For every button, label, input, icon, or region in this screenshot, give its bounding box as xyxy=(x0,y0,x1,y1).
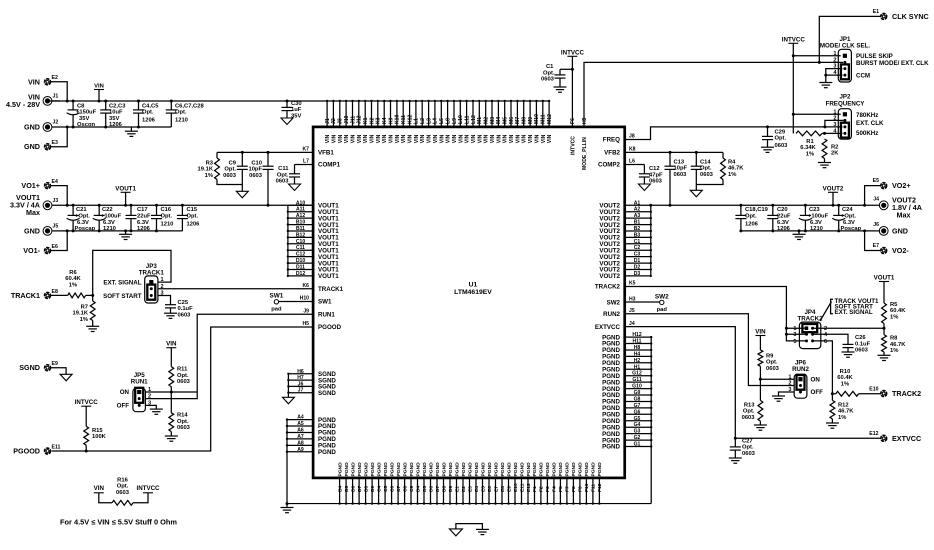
svg-text:J1: J1 xyxy=(325,118,331,124)
svg-text:VIN: VIN xyxy=(376,134,382,143)
svg-text:0603: 0603 xyxy=(766,366,780,372)
svg-text:PULSE SKIP: PULSE SKIP xyxy=(856,53,893,60)
svg-text:A9: A9 xyxy=(297,447,304,453)
svg-text:22uF: 22uF xyxy=(137,214,151,220)
svg-text:VIN: VIN xyxy=(395,134,401,143)
capacitor C20 22uF xyxy=(767,204,791,233)
svg-text:PGND: PGND xyxy=(474,462,480,477)
svg-text:1210: 1210 xyxy=(103,226,116,232)
capacitor C17 22uF xyxy=(126,204,151,233)
svg-text:Opt.: Opt. xyxy=(742,445,754,451)
svg-text:BURST MODE/ EXT. CLK: BURST MODE/ EXT. CLK xyxy=(856,60,929,67)
svg-text:F5: F5 xyxy=(558,486,564,492)
svg-text:U1: U1 xyxy=(469,282,478,289)
svg-text:pad: pad xyxy=(657,307,668,313)
wire E2 to VIN rail xyxy=(51,82,69,103)
svg-text:A5: A5 xyxy=(297,421,304,427)
ground chassis below C14/R4 xyxy=(690,185,702,197)
svg-text:VIN: VIN xyxy=(503,134,509,143)
svg-text:C8: C8 xyxy=(77,103,85,109)
svg-text:VIN: VIN xyxy=(452,134,458,143)
svg-text:J6: J6 xyxy=(298,381,304,387)
svg-text:R1: R1 xyxy=(806,139,814,145)
svg-text:OFF: OFF xyxy=(117,403,130,410)
svg-text:D5: D5 xyxy=(422,485,428,492)
wire VOUT2 GND rail xyxy=(741,230,880,232)
terminal E5 VO2+ xyxy=(873,178,911,190)
svg-text:J9: J9 xyxy=(303,308,309,314)
svg-text:1%: 1% xyxy=(205,173,213,179)
svg-text:C26: C26 xyxy=(855,335,866,341)
svg-text:VIN: VIN xyxy=(528,134,534,143)
svg-text:VIN: VIN xyxy=(401,134,407,143)
svg-text:C6: C6 xyxy=(389,485,395,492)
svg-text:R9: R9 xyxy=(766,353,774,359)
note stuff 0 ohm text xyxy=(60,518,177,527)
svg-text:Opt.: Opt. xyxy=(743,409,755,415)
ground earth below C26 xyxy=(842,352,855,357)
svg-text:1206: 1206 xyxy=(187,222,201,228)
svg-text:0603: 0603 xyxy=(276,179,290,185)
svg-text:H1: H1 xyxy=(634,364,641,370)
svg-text:B8: B8 xyxy=(363,485,369,492)
svg-text:PGND: PGND xyxy=(493,462,499,477)
wire E9 to chassis ground xyxy=(51,368,67,375)
svg-text:E6: E6 xyxy=(52,244,58,250)
svg-text:L6: L6 xyxy=(629,159,635,165)
capacitor C16 Opt xyxy=(151,204,173,233)
capacitor C21 Opt Poscap xyxy=(67,204,96,233)
svg-text:J6: J6 xyxy=(873,222,879,228)
svg-text:J5: J5 xyxy=(629,308,635,314)
resistor R2 2K xyxy=(822,139,839,163)
svg-text:PGND: PGND xyxy=(539,462,545,477)
svg-text:PGND: PGND xyxy=(513,462,519,477)
svg-text:C30: C30 xyxy=(291,101,302,107)
terminal E6 VO1- xyxy=(23,244,58,255)
wire EXTVCC from IC to E12 xyxy=(625,327,881,440)
power flag INTVCC at JP1 xyxy=(782,36,806,43)
svg-text:M2: M2 xyxy=(484,117,490,124)
svg-text:35V: 35V xyxy=(109,116,119,122)
svg-text:PGND: PGND xyxy=(602,444,620,451)
svg-text:INTVCC: INTVCC xyxy=(136,485,160,492)
IC U1 right PGND pins H12-G1 with stubs xyxy=(625,332,653,448)
svg-text:VIN: VIN xyxy=(427,134,433,143)
svg-text:F11: F11 xyxy=(591,484,597,492)
svg-text:2: 2 xyxy=(833,58,836,64)
svg-text:C2,C3: C2,C3 xyxy=(109,103,126,109)
svg-text:4.5V - 28V: 4.5V - 28V xyxy=(6,100,40,109)
svg-text:L11: L11 xyxy=(464,115,470,124)
svg-text:J2: J2 xyxy=(331,118,337,124)
svg-text:0603: 0603 xyxy=(700,172,714,178)
svg-text:VIN: VIN xyxy=(357,134,363,143)
svg-text:PGND: PGND xyxy=(578,462,584,477)
svg-text:PGND: PGND xyxy=(389,462,395,477)
svg-text:0603: 0603 xyxy=(177,425,191,431)
svg-text:+Opt.: +Opt. xyxy=(75,214,90,220)
svg-text:K12: K12 xyxy=(407,114,413,124)
wire JP3 pin2 to IC TRACK1 xyxy=(158,288,313,290)
svg-text:PGND: PGND xyxy=(376,462,382,477)
svg-text:A3: A3 xyxy=(634,213,641,219)
svg-text:PGND: PGND xyxy=(467,462,473,477)
svg-text:B7: B7 xyxy=(357,485,363,492)
svg-text:INTVCC: INTVCC xyxy=(561,49,585,56)
svg-text:VIN: VIN xyxy=(351,134,357,143)
IC U1 pin J4 (EXTVCC) name xyxy=(629,321,635,327)
svg-text:1210: 1210 xyxy=(161,222,174,228)
svg-text:L2: L2 xyxy=(420,118,426,124)
svg-text:J12: J12 xyxy=(357,115,363,124)
svg-text:E7: E7 xyxy=(873,243,879,249)
svg-text:Opt.: Opt. xyxy=(177,419,189,425)
svg-text:M10: M10 xyxy=(534,114,540,124)
svg-text:C20: C20 xyxy=(777,207,788,213)
wire J1 to rail xyxy=(52,100,60,102)
svg-text:C14: C14 xyxy=(700,159,711,165)
svg-text:SGND: SGND xyxy=(318,390,336,397)
svg-text:Opt.: Opt. xyxy=(142,110,154,116)
wire JP4 pin6 to R10/R12 node xyxy=(813,341,833,394)
power flag INTVCC above F6 xyxy=(561,49,585,56)
svg-text:M7: M7 xyxy=(515,117,521,124)
svg-text:R14: R14 xyxy=(177,413,188,419)
wire E5 to VOUT2 rail xyxy=(863,186,881,207)
svg-text:E12: E12 xyxy=(869,431,878,437)
svg-text:1: 1 xyxy=(793,326,796,332)
svg-text:GND: GND xyxy=(892,226,908,235)
wire VIN input rail xyxy=(48,100,549,102)
svg-text:Opt.: Opt. xyxy=(177,373,189,379)
label JP4 positions bracket xyxy=(820,298,879,321)
terminal E3 GND xyxy=(24,140,58,151)
svg-text:G9: G9 xyxy=(634,390,641,396)
IC U1 pin K6 (TRACK1) name xyxy=(302,283,309,289)
svg-text:60.4K: 60.4K xyxy=(65,276,81,282)
label JP1 positions xyxy=(856,53,929,79)
svg-text:VIN: VIN xyxy=(363,134,369,143)
IC U1 left-edge internal pin labels xyxy=(318,150,344,456)
svg-text:+100uF: +100uF xyxy=(101,214,122,220)
IC U1 pin K5 (TRACK2) name xyxy=(629,281,636,287)
wire COMP1 net xyxy=(295,164,314,166)
ground chassis below E9 xyxy=(60,374,72,381)
svg-text:H7: H7 xyxy=(297,375,304,381)
ground earth below R8 xyxy=(878,355,891,360)
svg-text:1%: 1% xyxy=(890,348,898,354)
svg-text:1206: 1206 xyxy=(137,226,151,232)
svg-text:G5: G5 xyxy=(634,416,641,422)
svg-text:RUN2: RUN2 xyxy=(792,366,809,373)
capacitor C4,C5 Opt xyxy=(133,100,159,129)
svg-text:19.1K: 19.1K xyxy=(198,167,214,173)
svg-text:M8: M8 xyxy=(522,117,528,124)
wire JP1 pin3-pin4 to ground xyxy=(824,69,842,83)
svg-text:F9: F9 xyxy=(578,486,584,492)
svg-text:INTVCC: INTVCC xyxy=(782,36,806,43)
wire RUN2 from IC to JP6 pin2 xyxy=(625,314,795,386)
svg-text:K10: K10 xyxy=(395,114,401,124)
power flag VIN at R9 xyxy=(755,329,766,336)
ground earth below R13 xyxy=(754,425,767,430)
svg-text:pad: pad xyxy=(271,306,282,312)
svg-text:0603: 0603 xyxy=(541,77,555,83)
capacitor C22 100uF xyxy=(93,204,122,233)
svg-text:VIN: VIN xyxy=(496,134,502,143)
label JP2 positions xyxy=(856,112,884,137)
svg-text:F6: F6 xyxy=(570,118,576,124)
svg-text:TRACK1: TRACK1 xyxy=(318,286,344,293)
label JP6 ON/OFF xyxy=(811,376,824,396)
svg-text:1210: 1210 xyxy=(175,118,188,124)
svg-text:B4: B4 xyxy=(337,485,343,492)
ground earth symbol at ground bus left end xyxy=(281,504,294,513)
svg-text:VIN: VIN xyxy=(94,84,104,90)
svg-text:A12: A12 xyxy=(296,213,306,219)
terminal E4 VO1+ xyxy=(21,179,58,190)
svg-text:B1: B1 xyxy=(634,220,641,226)
svg-text:B10: B10 xyxy=(296,220,306,226)
svg-text:LTM4619EV: LTM4619EV xyxy=(454,289,492,296)
svg-text:J3: J3 xyxy=(338,118,344,124)
svg-text:SGND: SGND xyxy=(19,363,40,372)
svg-text:35V: 35V xyxy=(79,116,89,122)
svg-text:H10: H10 xyxy=(300,296,310,302)
svg-text:Opt.: Opt. xyxy=(745,214,757,220)
svg-text:C4: C4 xyxy=(376,485,382,492)
svg-text:H2: H2 xyxy=(634,358,641,364)
wire JP2 pin2 to FREQ net xyxy=(823,120,843,128)
svg-text:VIN: VIN xyxy=(484,134,490,143)
capacitor C25 0.1uF 0603 xyxy=(165,300,193,319)
svg-text:L4: L4 xyxy=(433,118,439,124)
svg-text:EXTVCC: EXTVCC xyxy=(892,434,921,443)
svg-text:Opt.: Opt. xyxy=(161,214,173,220)
svg-text:VOUT1: VOUT1 xyxy=(115,185,136,192)
svg-text:2K: 2K xyxy=(831,151,839,157)
svg-text:CLK SYNC: CLK SYNC xyxy=(892,12,929,21)
svg-text:D2: D2 xyxy=(634,265,641,271)
svg-text:ON: ON xyxy=(811,376,821,383)
svg-text:PGND: PGND xyxy=(357,462,363,477)
wire PGOOD from IC to E11 xyxy=(52,327,314,453)
svg-text:K8: K8 xyxy=(629,147,636,153)
svg-text:VIN: VIN xyxy=(515,134,521,143)
svg-text:G7: G7 xyxy=(634,403,641,409)
svg-text:PGND: PGND xyxy=(435,462,441,477)
svg-text:K1: K1 xyxy=(363,117,369,124)
svg-text:D12: D12 xyxy=(296,271,306,277)
capacitor C1 Opt 0603 xyxy=(541,64,572,87)
svg-text:EXT. CLK: EXT. CLK xyxy=(856,120,884,127)
resistor R7 19.1K xyxy=(73,294,96,326)
svg-text:For 4.5V ≤ VIN ≤ 5.5V Stuff 0: For 4.5V ≤ VIN ≤ 5.5V Stuff 0 Ohm xyxy=(60,518,177,527)
ground earth below JP5 pin3 xyxy=(150,409,163,414)
op-amp U1 LTM4619EV module body xyxy=(313,127,625,478)
svg-text:EXTVCC: EXTVCC xyxy=(595,324,621,331)
ground earth below JP6 pin3 xyxy=(772,396,785,401)
svg-text:D8: D8 xyxy=(441,485,447,492)
svg-text:E1: E1 xyxy=(873,9,879,15)
ground earth below VOUT1 bank xyxy=(119,229,132,239)
svg-text:D3: D3 xyxy=(634,271,641,277)
svg-text:K9: K9 xyxy=(388,117,394,124)
svg-text:G10: G10 xyxy=(632,384,642,390)
power flag VIN at R11 xyxy=(166,341,177,348)
svg-text:C3: C3 xyxy=(634,252,641,258)
wire JP5 pin3 to ground xyxy=(145,405,156,409)
svg-text:K3: K3 xyxy=(376,117,382,124)
terminal E1 CLK SYNC xyxy=(873,9,929,21)
capacitor C15 Opt xyxy=(177,204,200,231)
capacitor C2,C3 10uF xyxy=(100,100,126,129)
svg-text:PGND: PGND xyxy=(545,462,551,477)
svg-text:A4: A4 xyxy=(297,415,304,421)
svg-text:E8: E8 xyxy=(52,289,58,295)
svg-text:PGND: PGND xyxy=(552,462,558,477)
svg-text:1%: 1% xyxy=(728,172,736,178)
wire VOUT1 rail xyxy=(52,204,314,206)
svg-text:J5: J5 xyxy=(53,223,59,229)
svg-text:L10: L10 xyxy=(458,115,464,124)
svg-text:2: 2 xyxy=(788,381,791,387)
svg-text:0.1uF: 0.1uF xyxy=(855,341,871,347)
svg-text:VIN: VIN xyxy=(439,134,445,143)
svg-text:VO2+: VO2+ xyxy=(892,181,911,190)
IC U1 pin L6 (COMP2) name xyxy=(629,159,635,165)
svg-text:VOUT2: VOUT2 xyxy=(823,185,844,192)
svg-text:M11: M11 xyxy=(541,114,547,124)
wire INTVCC vertical to R1 xyxy=(792,43,795,133)
svg-text:VIN: VIN xyxy=(477,134,483,143)
svg-text:D4: D4 xyxy=(415,485,421,492)
svg-text:C18,C19: C18,C19 xyxy=(745,207,769,213)
svg-text:A8: A8 xyxy=(297,440,304,446)
svg-text:J4: J4 xyxy=(629,321,635,327)
wire COMP2 net xyxy=(625,164,645,166)
svg-text:H8: H8 xyxy=(634,345,641,351)
power flag INTVCC at R16 xyxy=(136,485,160,493)
svg-text:C9: C9 xyxy=(409,485,415,492)
svg-text:K5: K5 xyxy=(629,281,636,287)
resistor R3 19.1K xyxy=(198,152,243,184)
svg-text:Opt.: Opt. xyxy=(775,136,787,142)
resistor R4 46.7K xyxy=(696,152,744,184)
svg-text:0603: 0603 xyxy=(116,490,130,496)
resistor R11 Opt 0603 xyxy=(169,348,191,392)
capacitor C26 0.1uF 0603 xyxy=(843,335,871,354)
svg-text:G8: G8 xyxy=(634,397,641,403)
svg-text:M3: M3 xyxy=(490,117,496,124)
svg-text:Max: Max xyxy=(897,211,911,220)
svg-text:E6: E6 xyxy=(487,486,493,492)
svg-text:E7: E7 xyxy=(493,486,499,492)
svg-text:Oscon: Oscon xyxy=(77,122,95,128)
terminal J2 GND xyxy=(24,119,58,131)
svg-text:VIN: VIN xyxy=(534,134,540,143)
svg-text:0603: 0603 xyxy=(674,172,688,178)
svg-text:G6: G6 xyxy=(634,409,641,415)
svg-text:A11: A11 xyxy=(296,207,305,213)
svg-text:C9: C9 xyxy=(229,160,237,166)
svg-text:FREQUENCY: FREQUENCY xyxy=(826,100,866,107)
svg-text:MODE_PLLIN: MODE_PLLIN xyxy=(582,137,588,170)
svg-text:C6,C7,C28: C6,C7,C28 xyxy=(175,103,204,109)
svg-text:VIN: VIN xyxy=(94,485,105,492)
svg-text:L8: L8 xyxy=(445,118,451,124)
svg-text:R11: R11 xyxy=(177,367,188,373)
resistor R13 Opt 0603 xyxy=(742,379,763,425)
svg-text:R3: R3 xyxy=(206,160,214,166)
wire E6 to GND rail xyxy=(51,229,69,250)
svg-text:E12: E12 xyxy=(526,483,532,492)
IC U1 right-edge internal pin labels xyxy=(595,137,621,451)
wire VOUT1 pin collector vertical xyxy=(287,205,289,276)
IC U1 left VOUT1 pins A10-D12 with collector stubs xyxy=(287,200,313,277)
svg-text:C12: C12 xyxy=(649,166,660,172)
svg-text:Opt.: Opt. xyxy=(766,360,778,366)
IC U1 pin K7 (VFB1) name xyxy=(302,147,309,153)
svg-text:VIN: VIN xyxy=(490,134,496,143)
svg-text:R12: R12 xyxy=(838,402,849,408)
svg-text:D1: D1 xyxy=(634,258,641,264)
svg-text:VIN: VIN xyxy=(465,134,471,143)
svg-text:M12: M12 xyxy=(547,114,553,124)
svg-text:C24: C24 xyxy=(842,207,853,213)
wire VOUT2 rail xyxy=(651,204,880,206)
svg-text:0603: 0603 xyxy=(178,313,192,319)
svg-text:E10: E10 xyxy=(869,386,878,392)
svg-text:C17: C17 xyxy=(137,207,148,213)
svg-text:500KHz: 500KHz xyxy=(856,130,878,137)
svg-text:Max: Max xyxy=(26,208,40,217)
svg-text:Opt.: Opt. xyxy=(277,172,289,178)
svg-text:C21: C21 xyxy=(76,207,87,213)
svg-text:G3: G3 xyxy=(634,429,641,435)
capacitor C23 100uF xyxy=(799,204,829,233)
capacitor C8 150uF Oscon xyxy=(67,100,97,129)
svg-text:10pF: 10pF xyxy=(248,167,262,173)
resistor R10 60.4K xyxy=(832,369,880,396)
svg-text:PGND: PGND xyxy=(344,462,350,477)
svg-text:Opt.: Opt. xyxy=(543,70,555,76)
ground chassis below C12 xyxy=(638,184,650,191)
resistor R16 Opt 0603 xyxy=(99,477,148,505)
ground earth below R7 xyxy=(86,326,99,331)
svg-text:VIN: VIN xyxy=(331,134,337,143)
capacitor C6,C7,C28 Opt xyxy=(166,100,205,128)
svg-text:RUN1: RUN1 xyxy=(131,378,148,385)
ground earth below C1 xyxy=(554,87,567,92)
wire GND input bus xyxy=(52,126,172,128)
svg-text:PGOOD: PGOOD xyxy=(13,447,40,456)
svg-text:VO1+: VO1+ xyxy=(21,181,40,190)
ground chassis below C11 xyxy=(289,184,301,191)
terminal J6 GND xyxy=(873,222,908,235)
svg-text:VIN: VIN xyxy=(325,134,331,143)
svg-text:6.3V: 6.3V xyxy=(777,220,789,226)
svg-text:OFF: OFF xyxy=(811,389,824,396)
svg-text:E9: E9 xyxy=(52,361,58,367)
svg-text:2: 2 xyxy=(824,326,827,332)
svg-text:Opt.: Opt. xyxy=(175,110,187,116)
svg-text:D9: D9 xyxy=(448,485,454,492)
svg-text:PGND: PGND xyxy=(480,462,486,477)
capacitor C12 47pF 0603 xyxy=(639,165,663,185)
svg-text:E10: E10 xyxy=(513,483,519,492)
